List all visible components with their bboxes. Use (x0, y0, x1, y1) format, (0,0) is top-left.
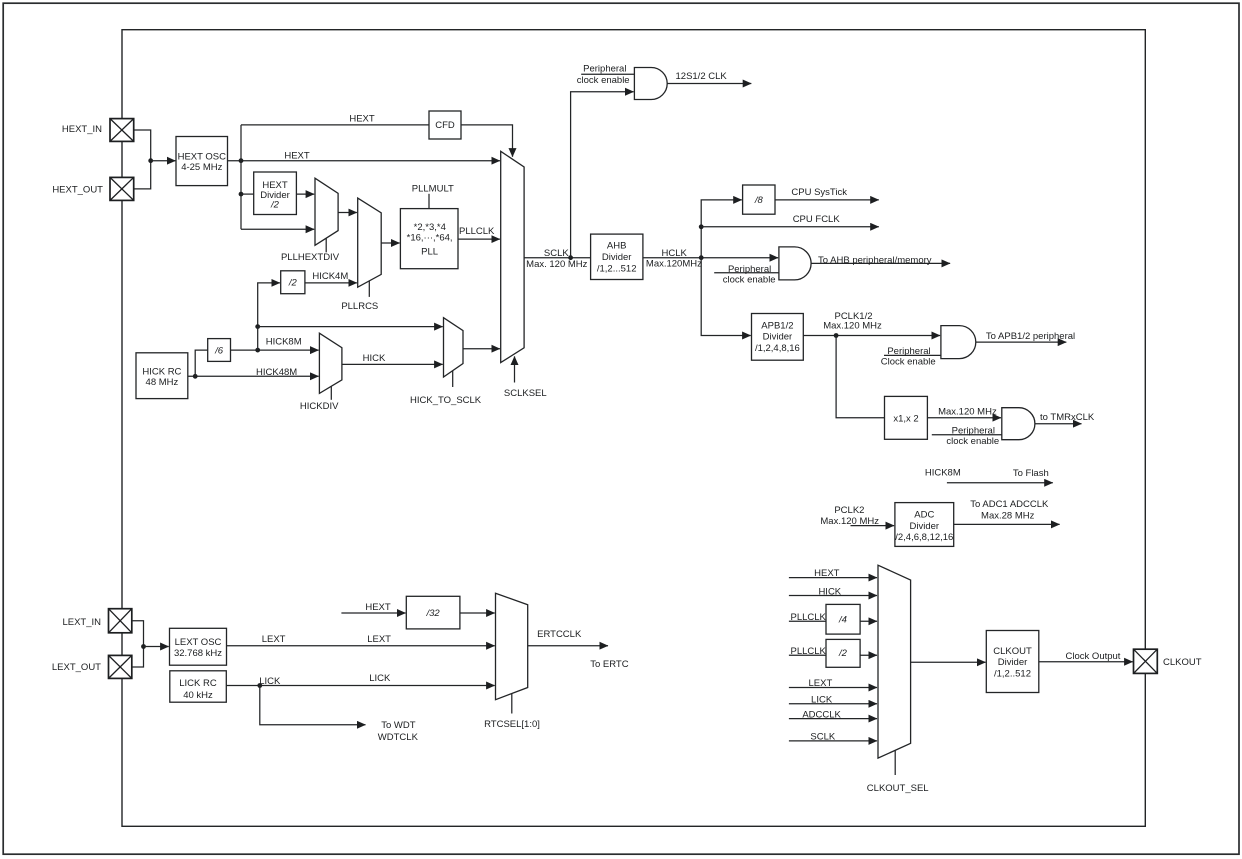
svg-text:HICK8M: HICK8M (925, 467, 961, 478)
svg-text:Peripheral: Peripheral (728, 264, 771, 275)
svg-text:*2,*3,*4: *2,*3,*4 (414, 222, 446, 233)
svg-text:CLKOUT: CLKOUT (1163, 657, 1202, 668)
wire HCLK trunk down to APB divider (701, 258, 751, 336)
oscillator LICK RC 40 kHz (170, 671, 227, 702)
wire /6 output (HICK8M) to HICKDIV (231, 349, 319, 351)
svg-text:Peripheral: Peripheral (583, 63, 626, 74)
svg-text:HEXT: HEXT (365, 602, 391, 613)
svg-text:To APB1/2 peripheral: To APB1/2 peripheral (986, 331, 1075, 342)
wire Clock Output to CLKOUT pad (1039, 661, 1133, 663)
svg-text:/1,2,4,8,16: /1,2,4,8,16 (755, 343, 800, 354)
gate AND To AHB peripheral/memory (779, 247, 811, 280)
wire PLLMULT select into PLL (428, 194, 430, 209)
svg-text:clock enable: clock enable (723, 275, 776, 286)
svg-text:12S1/2 CLK: 12S1/2 CLK (676, 71, 728, 82)
multiplier x1,x2 (885, 396, 928, 439)
wire SCLK (SCLKSEL output to AHB Divider) (524, 257, 591, 259)
wire HICK RC output (HICK48M) to HICKDIV (188, 375, 319, 377)
svg-text:LICK RC: LICK RC (179, 678, 217, 689)
wire /32 to RTCSEL mux (460, 612, 495, 614)
pad LEXT_OUT (109, 655, 132, 678)
wire PLLCLK to SCLKSEL mux (458, 238, 500, 240)
mux SCLKSEL (501, 151, 524, 382)
node SCLK junction (568, 255, 573, 260)
svg-text:HICKDIV: HICKDIV (300, 401, 339, 412)
wire CPU FCLK (701, 226, 879, 228)
svg-text:To ADC1 ADCCLK: To ADC1 ADCCLK (970, 499, 1049, 510)
wire tap up to /6 (195, 350, 208, 376)
wire LEXT to RTCSEL mux (227, 645, 495, 647)
wire junction to LEXT OSC (144, 646, 169, 648)
divider /2 (CLKOUT) (826, 639, 860, 667)
svg-text:to TMRxCLK: to TMRxCLK (1040, 412, 1095, 423)
wire HICK_TO_SCLK to SCLKSEL mux (463, 348, 500, 350)
svg-text:WDTCLK: WDTCLK (378, 732, 419, 743)
svg-text:LEXT_IN: LEXT_IN (62, 617, 101, 628)
svg-text:CPU SysTick: CPU SysTick (791, 187, 847, 198)
svg-text:40 kHz: 40 kHz (183, 690, 213, 701)
wire HEXT to CFD (241, 124, 429, 126)
node HICK RC tap (193, 374, 198, 379)
wire LEXT to CLKOUT_SEL (789, 687, 877, 689)
svg-text:Divider: Divider (763, 332, 793, 343)
svg-text:LICK: LICK (369, 673, 391, 684)
oscillator HICK RC 48 MHz (136, 353, 188, 399)
svg-text:LICK: LICK (811, 695, 833, 706)
svg-text:/1,2..512: /1,2..512 (994, 668, 1031, 679)
wire HEXT to CLKOUT_SEL (789, 577, 877, 579)
pad LEXT_IN (109, 609, 132, 633)
svg-text:LEXT_OUT: LEXT_OUT (52, 662, 101, 673)
gate AND To APB1/2 peripheral (941, 326, 976, 359)
wire Peripheral Clock enable (APB gate) (884, 354, 941, 356)
wire HEXT Divider to PLLHEXTDIV mux (296, 193, 314, 195)
wire junction to HEXT OSC (151, 160, 176, 162)
svg-text:HICK_TO_SCLK: HICK_TO_SCLK (410, 395, 482, 406)
divider /2 (HICK4M) (281, 271, 305, 294)
svg-text:PLLHEXTDIV: PLLHEXTDIV (281, 252, 340, 263)
wire 12S1/2 CLK output (667, 83, 751, 85)
pad HEXT_IN (110, 119, 134, 142)
svg-text:HEXT_IN: HEXT_IN (62, 124, 102, 135)
wire HEXT_OUT to junction (134, 161, 151, 189)
pll PLL multiplier block (400, 209, 458, 269)
svg-text:Divider: Divider (910, 521, 940, 532)
wire /4 to CLKOUT_SEL (860, 620, 877, 622)
svg-text:CLKOUT: CLKOUT (993, 646, 1032, 657)
wire SCLK trunk to 12S gate (571, 92, 634, 258)
wire HEXT main (OSC output to SCLKSEL mux) (228, 160, 500, 162)
wire HCLK (AHB output to AHB gate) (643, 257, 778, 259)
wire Peripheral clock enable (TMR gate) (932, 434, 1002, 436)
mux PLLHEXTDIV (315, 178, 338, 252)
svg-text:HICK8M: HICK8M (266, 337, 302, 348)
oscillator LEXT OSC 32.768 kHz (170, 628, 227, 665)
wire HICK to CLKOUT_SEL (789, 595, 877, 597)
wire HEXT to /32 (341, 612, 405, 614)
node HICK8M upper junction (255, 324, 260, 329)
gate AND to TMRxCLK (1002, 408, 1035, 440)
divider /8 (SysTick) (743, 185, 775, 214)
svg-text:SCLK: SCLK (544, 248, 569, 259)
wire Peripheral clock enable (AHB gate) (714, 272, 779, 274)
wire HICK8M to HICK_TO_SCLK mux (258, 327, 443, 351)
wire HICK4M to PLLRCS mux (305, 282, 357, 284)
node HCLK junction (699, 255, 704, 260)
oscillator HEXT OSC 4-25 MHz (176, 137, 228, 186)
divider HEXT Divider /2 (254, 172, 297, 215)
svg-text:RTCSEL[1:0]: RTCSEL[1:0] (484, 719, 540, 730)
wire LICK to RTCSEL mux (226, 685, 494, 687)
svg-text:HICK: HICK (363, 353, 386, 364)
svg-text:Max. 120 MHz: Max. 120 MHz (526, 259, 587, 270)
svg-text:/32: /32 (425, 608, 440, 619)
svg-text:Max.120 MHz: Max.120 MHz (823, 321, 882, 332)
svg-text:/8: /8 (754, 195, 764, 206)
svg-text:LICK: LICK (259, 676, 281, 687)
svg-text:x1,x 2: x1,x 2 (893, 413, 918, 424)
svg-text:SCLK: SCLK (810, 732, 835, 743)
wire PLLCLK to /4 (789, 620, 826, 622)
node HEXT divider tap (239, 192, 244, 197)
wire LEXT_OUT to junction (132, 647, 144, 668)
divider /32 (406, 596, 460, 629)
wire HICK to HICK_TO_SCLK mux (342, 363, 443, 365)
node LICK junction (257, 683, 262, 688)
svg-text:ADCCLK: ADCCLK (802, 709, 841, 720)
svg-text:PLLCLK: PLLCLK (791, 612, 827, 623)
wire CLKOUT_SEL to CLKOUT Divider (911, 661, 986, 663)
svg-text:LEXT: LEXT (367, 634, 391, 645)
divider /6 (208, 339, 231, 362)
svg-text:Clock enable: Clock enable (881, 356, 936, 367)
wire PLLRCS to PLL (381, 242, 399, 244)
wire To APB1/2 peripheral output (976, 341, 1067, 343)
svg-text:To WDT: To WDT (381, 720, 416, 731)
svg-text:Divider: Divider (998, 657, 1028, 668)
svg-text:LEXT: LEXT (809, 678, 833, 689)
wire HCLK trunk up to /8 (701, 200, 742, 258)
wire PLLCLK to /2 (789, 654, 826, 656)
wire SCLK to CLKOUT_SEL (789, 740, 877, 742)
divider CLKOUT Divider /1,2..512 (986, 631, 1039, 693)
mux HICK_TO_SCLK (444, 318, 464, 387)
svg-text:clock enable: clock enable (577, 75, 630, 86)
svg-text:48 MHz: 48 MHz (146, 377, 179, 388)
mux RTCSEL (496, 593, 528, 713)
wire x1,x2 to TMR gate (927, 417, 1001, 419)
svg-text:Max.28 MHz: Max.28 MHz (981, 510, 1035, 521)
svg-text:/2,4,6,8,12,16: /2,4,6,8,12,16 (895, 532, 953, 543)
wire HICK8M to Flash (947, 482, 1053, 484)
wire CPU SysTick output (775, 199, 879, 201)
wire ERTCCLK output (528, 645, 608, 647)
wire LEXT_IN to junction (132, 621, 144, 647)
svg-text:APB1/2: APB1/2 (761, 320, 793, 331)
node HEXT trunk junction (239, 158, 244, 163)
svg-text:Divider: Divider (602, 252, 632, 263)
wire To AHB peripheral/memory output (811, 262, 950, 264)
svg-text:CFD: CFD (435, 120, 455, 131)
svg-text:PLLCLK: PLLCLK (791, 646, 827, 657)
svg-text:CLKOUT_SEL: CLKOUT_SEL (867, 783, 929, 794)
divider AHB Divider /1,2...512 (591, 234, 643, 279)
node HEXT pad junction (148, 158, 153, 163)
svg-text:HEXT: HEXT (349, 113, 375, 124)
block CFD (429, 111, 461, 139)
wire LICK to CLKOUT_SEL (789, 703, 877, 705)
wire ADCCLK output (954, 523, 1060, 525)
wire HICK4M feed to /2 (258, 283, 280, 327)
svg-text:/2: /2 (838, 648, 848, 659)
divider /4 (CLKOUT) (826, 604, 860, 634)
wire Peripheral clock enable (12S gate) (581, 73, 634, 75)
svg-text:PLLMULT: PLLMULT (412, 183, 454, 194)
node HICK8M junction (255, 348, 260, 353)
svg-text:32.768 kHz: 32.768 kHz (174, 648, 222, 659)
svg-text:Clock Output: Clock Output (1066, 651, 1121, 662)
divider APB1/2 Divider /1,2,4,8,16 (752, 314, 804, 361)
svg-text:To AHB peripheral/memory: To AHB peripheral/memory (818, 255, 932, 266)
svg-text:HICK: HICK (818, 586, 841, 597)
svg-text:AHB: AHB (607, 241, 627, 252)
node LEXT pad junction (141, 644, 146, 649)
svg-text:/2: /2 (270, 200, 280, 211)
svg-text:clock enable: clock enable (946, 436, 999, 447)
svg-text:ERTCCLK: ERTCCLK (537, 629, 582, 640)
wire HEXT vertical trunk (240, 125, 242, 229)
svg-text:PLLRCS: PLLRCS (341, 301, 378, 312)
svg-text:HCLK: HCLK (662, 248, 688, 259)
wire HEXT direct to PLLHEXTDIV mux (241, 228, 314, 230)
svg-text:*16,···,*64,: *16,···,*64, (407, 232, 453, 243)
wire PLLHEXTDIV to PLLRCS mux (338, 212, 357, 214)
wire trunk to HEXT Divider (241, 193, 254, 195)
svg-text:HEXT_OUT: HEXT_OUT (52, 184, 103, 195)
pad CLKOUT (1134, 649, 1158, 673)
mux PLLRCS (358, 198, 382, 297)
divider ADC Divider /2,4,6,8,12,16 (895, 503, 954, 547)
svg-text:ADC: ADC (914, 510, 934, 521)
wire PCLK2 to ADC Divider (851, 525, 895, 527)
svg-text:SCLKSEL: SCLKSEL (504, 388, 547, 399)
wire /2 to CLKOUT_SEL (860, 654, 877, 656)
svg-text:To ERTC: To ERTC (590, 659, 629, 670)
svg-text:Max.120MHz: Max.120MHz (646, 258, 702, 269)
node CPU FCLK tap (699, 224, 704, 229)
svg-text:Max.120 MHz: Max.120 MHz (938, 406, 997, 417)
wire ADCCLK to CLKOUT_SEL (789, 718, 877, 720)
svg-text:/1,2...512: /1,2...512 (597, 263, 637, 274)
wire PCLK1/2 (APB output to APB gate) (803, 335, 940, 337)
wire HEXT_IN to junction (134, 130, 151, 161)
wire LICK to WDT (260, 686, 366, 725)
wire to TMRxCLK output (1035, 423, 1082, 425)
chip boundary (122, 30, 1145, 827)
pad HEXT_OUT (110, 177, 134, 200)
node PCLK junction (834, 333, 839, 338)
svg-text:/4: /4 (838, 614, 847, 625)
wire CFD output to SCLKSEL top (461, 125, 513, 157)
svg-text:/2: /2 (288, 278, 298, 289)
svg-text:HEXT: HEXT (814, 568, 840, 579)
mux CLKOUT_SEL (878, 565, 911, 775)
wire PCLK down to x1,x2 (836, 336, 884, 418)
svg-text:PCLK2: PCLK2 (834, 505, 864, 516)
svg-text:CPU FCLK: CPU FCLK (793, 214, 841, 225)
mux HICKDIV (319, 333, 342, 400)
gate AND 12S1/2 (634, 68, 667, 100)
svg-text:To Flash: To Flash (1013, 468, 1049, 479)
svg-text:HEXT: HEXT (284, 150, 310, 161)
svg-text:PLLCLK: PLLCLK (459, 226, 495, 237)
svg-text:LEXT OSC: LEXT OSC (175, 637, 222, 648)
svg-text:HICK4M: HICK4M (312, 271, 348, 282)
svg-text:LEXT: LEXT (262, 634, 286, 645)
svg-text:PLL: PLL (421, 247, 438, 258)
svg-text:/6: /6 (214, 346, 224, 357)
svg-text:4-25 MHz: 4-25 MHz (181, 162, 222, 173)
svg-text:HICK48M: HICK48M (256, 367, 297, 378)
